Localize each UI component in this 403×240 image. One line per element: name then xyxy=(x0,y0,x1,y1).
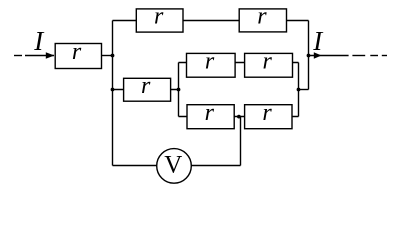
resistor R2 xyxy=(136,9,183,32)
wire: left column node A bus xyxy=(112,21,114,166)
wire: output lead xyxy=(309,55,349,57)
wire: right column node B bus xyxy=(308,21,310,90)
svg-text:r: r xyxy=(205,49,215,75)
wire: R1 output to node A xyxy=(102,55,113,57)
resistor R7 xyxy=(187,105,234,129)
svg-text:r: r xyxy=(141,73,151,99)
wire: right sub column xyxy=(298,63,300,117)
arrowhead output current xyxy=(314,52,322,59)
svg-text:r: r xyxy=(72,39,82,65)
wire: output dash 3 xyxy=(382,55,387,57)
wire: split column at node C xyxy=(178,63,180,117)
junction node A2 middle branch xyxy=(111,88,115,92)
resistor R5 xyxy=(187,53,236,77)
wire: output dash 2 xyxy=(370,55,378,57)
junction node A1 input xyxy=(111,54,115,58)
wire: lower sub-branch through R7 R8 xyxy=(179,116,299,118)
resistor R4 xyxy=(124,78,171,101)
svg-text:r: r xyxy=(262,100,272,126)
resistor R6 xyxy=(245,53,293,77)
junction node E right sub xyxy=(297,88,301,92)
wire: top rail through R2 R3 xyxy=(113,20,309,22)
wire: input lead with current arrow xyxy=(25,55,54,57)
voltmeter V1 body xyxy=(157,149,192,184)
junction node D between R7 R8 xyxy=(237,115,241,119)
svg-text:V: V xyxy=(164,152,182,179)
wire: jog from sub-network to node B xyxy=(299,89,309,91)
svg-text:r: r xyxy=(154,4,164,30)
wire: bottom rail through voltmeter xyxy=(113,165,241,167)
wire: voltmeter right riser from node D xyxy=(240,117,242,166)
resistor R8 xyxy=(245,105,292,129)
svg-text:I: I xyxy=(312,26,324,56)
junction node C split xyxy=(177,88,181,92)
arrowhead input current xyxy=(46,52,55,59)
resistor R3 xyxy=(239,9,286,32)
svg-text:r: r xyxy=(263,49,273,75)
wire: output dashed lead xyxy=(352,55,365,57)
wire: upper sub-branch through R5 R6 xyxy=(179,62,299,64)
resistor R1 xyxy=(55,44,101,69)
wire: middle branch through R4 xyxy=(113,89,179,91)
svg-text:I: I xyxy=(33,26,45,56)
wire: input dashed lead xyxy=(14,55,22,57)
junction node B output xyxy=(307,54,311,58)
svg-text:r: r xyxy=(205,100,215,126)
svg-text:r: r xyxy=(257,4,267,30)
